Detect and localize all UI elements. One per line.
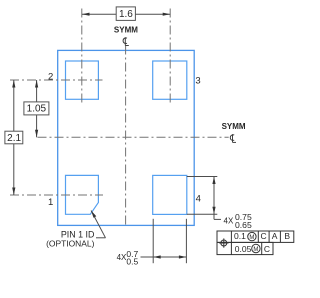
datum ref C row 2 xyxy=(264,244,270,254)
svg-text:C: C xyxy=(261,231,267,241)
svg-text:0.65: 0.65 xyxy=(235,220,252,230)
centerline horizontal top pad row xyxy=(10,79,103,81)
PIN 1 ID label xyxy=(46,230,94,249)
pad 4 (bottom-right) xyxy=(153,175,187,214)
pin number 2 xyxy=(48,72,53,83)
centerline symbol top xyxy=(123,37,129,45)
dimension 1.05 left xyxy=(24,80,49,137)
svg-text:2: 2 xyxy=(48,72,53,83)
tolerance 0.05 with M modifier xyxy=(235,244,260,254)
svg-text:1.6: 1.6 xyxy=(119,9,133,20)
datum refs C A B xyxy=(261,231,291,241)
SYMM label right xyxy=(222,122,246,131)
svg-text:4: 4 xyxy=(196,193,201,204)
centerline horizontal middle symm xyxy=(38,136,229,138)
svg-text:M: M xyxy=(249,235,254,241)
pin number 3 xyxy=(195,76,200,87)
centerline vertical center symm xyxy=(125,46,127,228)
dimension 2.1 left xyxy=(5,80,23,195)
dimension 4X 0.7/0.5 bottom with pad width extension lines xyxy=(117,219,187,267)
svg-text:B: B xyxy=(284,231,290,241)
SYMM label top xyxy=(114,26,138,35)
dimension 1.6 top xyxy=(82,7,170,21)
svg-text:0.5: 0.5 xyxy=(126,256,138,266)
package outline xyxy=(58,50,195,225)
svg-text:(OPTIONAL): (OPTIONAL) xyxy=(46,239,94,249)
centerline vertical right pad column xyxy=(169,9,171,104)
svg-text:3: 3 xyxy=(195,76,200,87)
pad 1 (bottom-left, chamfered pin-1 corner) xyxy=(66,175,99,214)
svg-text:C: C xyxy=(264,244,270,254)
svg-text:1.05: 1.05 xyxy=(27,104,47,115)
position symbol xyxy=(219,238,228,247)
pin number 4 xyxy=(196,193,201,204)
tolerance 0.1 with M modifier xyxy=(234,231,256,241)
centerline vertical left pad column xyxy=(81,9,83,104)
svg-text:M: M xyxy=(253,247,258,253)
svg-text:2.1: 2.1 xyxy=(7,133,21,144)
pad 2 (top-left) xyxy=(66,61,99,99)
pad 3 (top-right) xyxy=(153,61,187,99)
centerline horizontal bottom pad row xyxy=(10,194,103,196)
svg-text:1: 1 xyxy=(48,197,53,208)
feature control frame: position 0.1 M C A B / 0.05 M C xyxy=(217,231,294,255)
svg-text:0.05: 0.05 xyxy=(235,244,252,254)
svg-text:4X: 4X xyxy=(224,216,234,225)
svg-text:SYMM: SYMM xyxy=(114,26,138,35)
dimension 4X 0.75/0.65 right with pad height extension lines xyxy=(187,177,252,230)
centerline symbol right xyxy=(230,134,236,142)
svg-text:0.1: 0.1 xyxy=(234,231,246,241)
leader line from PIN 1 ID to chamfer xyxy=(91,211,105,238)
pin number 1 xyxy=(48,197,53,208)
svg-text:A: A xyxy=(272,231,278,241)
svg-text:SYMM: SYMM xyxy=(222,122,246,131)
